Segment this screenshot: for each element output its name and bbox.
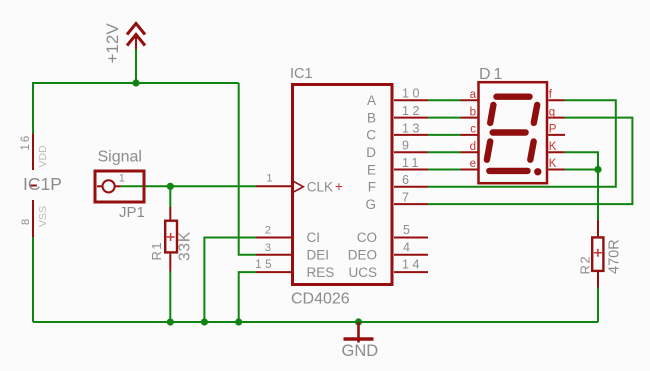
svg-text:CI: CI [307, 230, 321, 245]
wire VSS drop [32, 237, 34, 322]
wire cathode K1 [565, 152, 599, 169]
svg-text:D: D [366, 145, 376, 160]
display pin name K2 [549, 158, 557, 170]
pin name CLK [307, 179, 343, 195]
svg-text:e: e [470, 158, 476, 170]
label 470R [606, 239, 622, 274]
wire net E [428, 169, 461, 171]
resistor R1 body [165, 207, 177, 271]
pin name UCS [348, 265, 377, 280]
svg-text:4: 4 [403, 240, 410, 254]
pin number 1 IC [266, 173, 272, 185]
svg-text:7: 7 [402, 191, 409, 205]
display pin name e [470, 158, 476, 170]
pin name E [367, 162, 376, 177]
svg-text:R1: R1 [149, 241, 164, 261]
display D1 decimal point [534, 168, 541, 175]
pin number 10 [402, 87, 423, 101]
connector JP1 box [95, 171, 144, 202]
svg-text:g: g [549, 106, 555, 118]
power gate IC1P body mark [29, 185, 37, 187]
pin number 2 [265, 225, 271, 237]
junction rail CI [201, 318, 208, 325]
label JP1 [119, 204, 145, 221]
pin name DEI [307, 248, 330, 263]
IC1 pin 4 stub DEO [394, 254, 428, 256]
wire RES to ground [239, 272, 256, 322]
pin number 1 JP1 [119, 172, 125, 184]
wire K to R2 [597, 170, 599, 221]
svg-text:IC1P: IC1P [23, 174, 62, 194]
svg-text:GND: GND [342, 342, 379, 360]
pin name C [366, 128, 376, 143]
svg-text:CO: CO [357, 230, 377, 245]
IC1 pin 2 stub [256, 237, 291, 239]
IC1 pin 6 stub F [394, 186, 428, 188]
pin name G [365, 197, 376, 212]
display pin name g [549, 106, 555, 118]
svg-text:1: 1 [119, 172, 125, 184]
label D1 [479, 66, 505, 83]
label R2 [578, 255, 593, 275]
junction +12V [132, 79, 139, 86]
wire +12V rail [33, 83, 239, 134]
display pin c stub [461, 134, 478, 136]
wire CLK to R1 [169, 186, 171, 207]
wire cathode K2 [565, 169, 599, 171]
pin name RES [307, 265, 335, 280]
pin number 11 [402, 156, 422, 170]
wire net G wrap [428, 118, 632, 205]
junction CLK/R1 [167, 183, 174, 190]
svg-text:D1: D1 [479, 66, 505, 83]
display pin K2 stub [548, 169, 564, 171]
display pin P stub [548, 134, 565, 136]
pin number 7 [402, 191, 409, 205]
svg-text:DEO: DEO [348, 248, 377, 263]
IC1 pin 7 stub G [394, 203, 428, 205]
wire R2 to ground rail [597, 287, 599, 322]
pin number 6 [402, 173, 409, 187]
svg-text:B: B [367, 110, 376, 125]
svg-text:CD4026: CD4026 [291, 291, 350, 308]
svg-text:a: a [470, 89, 477, 101]
pin number 13 [402, 121, 423, 135]
svg-text:A: A [367, 93, 376, 108]
display pin name d [470, 141, 476, 153]
label CD4026 [291, 291, 350, 308]
pin name CO [357, 230, 377, 245]
label IC1 [290, 66, 313, 82]
display pin name a [470, 89, 477, 101]
IC1 pin 11 stub E [394, 169, 428, 171]
svg-text:11: 11 [402, 156, 422, 170]
svg-text:Signal: Signal [98, 148, 142, 165]
junction rail GND [355, 318, 362, 325]
svg-text:DEI: DEI [307, 248, 330, 263]
svg-text:15: 15 [255, 259, 275, 271]
pin name CI [307, 230, 321, 245]
op IC1 CD4026 box [293, 85, 393, 285]
IC1 pin 3 stub [256, 254, 291, 256]
svg-text:33K: 33K [177, 231, 194, 261]
pin number 9 [402, 139, 409, 153]
svg-text:IC1: IC1 [290, 66, 313, 82]
svg-text:VDD: VDD [37, 145, 49, 168]
IC1 pin 12 stub B [394, 117, 428, 119]
IC1 pin 1 stub [256, 185, 291, 187]
ground GND symbol [344, 322, 374, 343]
display pin e stub [461, 169, 478, 171]
svg-text:13: 13 [402, 121, 423, 135]
display D1 box [479, 82, 548, 183]
pin number 8 [20, 219, 32, 225]
display pin name f [549, 89, 553, 101]
IC1 pin 15 stub [256, 271, 291, 273]
wire net C [428, 134, 461, 136]
svg-text:R2: R2 [578, 255, 593, 275]
IC1 pin 10 stub A [394, 99, 428, 101]
pin name F [368, 180, 376, 195]
display pin name c [470, 124, 476, 136]
pin name B [367, 110, 376, 125]
pin number 12 [402, 104, 423, 118]
wire net B [428, 117, 461, 119]
pin name VSS [37, 206, 49, 227]
IC1 pin 14 stub UCS [394, 271, 428, 273]
display pin g stub [548, 117, 564, 119]
svg-text:JP1: JP1 [119, 204, 145, 221]
svg-text:VSS: VSS [37, 206, 49, 227]
pin number 4 [403, 240, 410, 254]
display pin name b [470, 106, 476, 118]
wire net D [428, 151, 461, 153]
svg-text:UCS: UCS [348, 265, 377, 280]
display pin K1 stub [548, 151, 564, 153]
svg-text:3: 3 [265, 242, 271, 254]
svg-text:9: 9 [402, 139, 409, 153]
display pin b stub [461, 117, 478, 119]
svg-text:6: 6 [402, 173, 409, 187]
display pin a stub [461, 99, 478, 101]
wire CI to ground [204, 238, 256, 323]
IC1 clock triangle [293, 181, 304, 192]
display pin name K1 [549, 141, 557, 153]
power gate IC1P pin 16 VDD [32, 134, 34, 171]
pin number 14 [402, 258, 423, 272]
IC1 pin 5 stub CO [394, 237, 428, 239]
pin name D [366, 145, 376, 160]
junction rail RES [235, 318, 242, 325]
svg-text:5: 5 [403, 223, 410, 237]
svg-text:K: K [549, 141, 557, 153]
display D1 segments [487, 97, 537, 171]
wire net F wrap [428, 100, 616, 187]
display pin d stub [461, 151, 478, 153]
wire +12V drop to DEI [239, 83, 256, 255]
svg-text:G: G [365, 197, 376, 212]
pin number 16 [20, 134, 32, 151]
resistor R2 body [592, 220, 603, 288]
display pin name P [549, 124, 557, 136]
connector JP1 pin circle [97, 180, 121, 192]
label R1 [149, 241, 164, 261]
svg-text:K: K [549, 158, 557, 170]
IC1 pin 13 stub C [394, 134, 428, 136]
pin name A [367, 93, 376, 108]
svg-text:CLK: CLK [307, 180, 333, 195]
svg-text:+12V: +12V [103, 23, 122, 64]
svg-text:16: 16 [20, 134, 32, 151]
wire CLK [121, 185, 257, 187]
svg-text:2: 2 [265, 225, 271, 237]
svg-text:b: b [470, 106, 476, 118]
svg-text:RES: RES [307, 265, 335, 280]
label Signal [98, 148, 142, 165]
power gate IC1P pin 8 VSS [32, 200, 34, 237]
svg-text:+: + [335, 179, 343, 194]
wire +12V stem [135, 49, 137, 83]
supply +12V symbol [127, 24, 145, 50]
svg-text:C: C [366, 128, 376, 143]
svg-text:10: 10 [402, 87, 423, 101]
IC1 pin 9 stub D [394, 151, 428, 153]
label IC1P [23, 174, 62, 194]
label GND [342, 342, 379, 360]
label +12V [103, 23, 122, 64]
svg-text:8: 8 [20, 219, 32, 225]
wire R1 to ground rail [169, 271, 171, 322]
svg-text:d: d [470, 141, 476, 153]
pin name DEO [348, 248, 377, 263]
svg-text:12: 12 [402, 104, 423, 118]
svg-text:1: 1 [266, 173, 272, 185]
svg-text:P: P [549, 124, 557, 136]
junction K pins [594, 166, 601, 173]
svg-text:F: F [368, 180, 376, 195]
junction rail R1 [167, 318, 174, 325]
svg-text:14: 14 [402, 258, 423, 272]
svg-text:c: c [470, 124, 476, 136]
svg-text:E: E [367, 162, 376, 177]
pin number 15 [255, 259, 275, 271]
pin number 3 [265, 242, 271, 254]
svg-text:470R: 470R [606, 239, 622, 274]
pin name VDD [37, 145, 49, 168]
wire ground rail [33, 321, 598, 323]
pin number 5 [403, 223, 410, 237]
label 33K [177, 231, 194, 261]
wire net A [428, 99, 461, 101]
display pin f stub [548, 99, 564, 101]
